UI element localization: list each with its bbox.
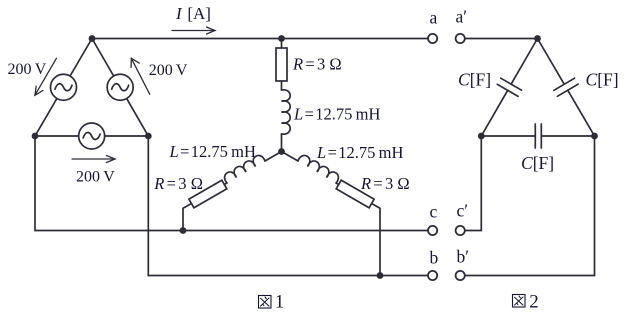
node top branch tap (278, 35, 285, 42)
terminal a (428, 34, 437, 43)
arrow 200V bottom (72, 156, 115, 163)
wire R1 to L1 (281, 81, 283, 90)
wire cap delta bottom right segment (541, 135, 594, 137)
svg-text:L = 12.75 mH: L = 12.75 mH (293, 105, 381, 124)
node cap delta apex (534, 35, 541, 42)
label figure 1 (zu 1) (259, 296, 272, 309)
wire cap delta left side lower (481, 90, 507, 136)
svg-text:R = 3 Ω: R = 3 Ω (292, 55, 342, 74)
svg-text:200 V: 200 V (149, 62, 188, 79)
svg-text:C[F]: C[F] (586, 70, 619, 90)
wire delta bottom side (35, 135, 148, 137)
node cap delta bottom-left (478, 133, 485, 140)
svg-text:1: 1 (275, 292, 285, 313)
svg-text:c′: c′ (457, 201, 469, 221)
arrow current I (172, 27, 215, 34)
terminal c (428, 226, 437, 235)
resistor R1 (top branch, R=3 ohm) (276, 48, 287, 81)
wire star point to L2 (265, 152, 282, 162)
wire delta right side (92, 39, 148, 137)
node delta bottom-right (145, 133, 152, 140)
svg-text:C[F]: C[F] (521, 153, 554, 173)
node right branch to b-line (377, 272, 384, 279)
terminal a' (456, 34, 465, 43)
wire right vertical to b-line (148, 136, 428, 276)
node star point N (278, 148, 285, 155)
terminal c' (456, 226, 465, 235)
node left branch to c-line (180, 227, 187, 234)
wire cap delta right side lower (568, 90, 595, 136)
wire cap delta right side upper (538, 39, 565, 85)
wire delta left side (35, 39, 92, 137)
node delta bottom-left (32, 133, 39, 140)
inductor L3 (right branch, L=12.75 mH) (298, 155, 338, 183)
svg-text:a: a (430, 8, 438, 28)
inductor L2 (left branch, L=12.75 mH) (225, 155, 265, 183)
svg-text:L = 12.75 mH: L = 12.75 mH (169, 142, 257, 161)
arrow 200V right (131, 58, 150, 94)
capacitor C3 (bottom, C[F]) (535, 124, 541, 148)
wire cap delta bottom left segment (481, 135, 535, 137)
node cap delta bottom-right (591, 133, 598, 140)
wire a' to capacitor delta apex (465, 38, 538, 40)
capacitor C1 (left side, C[F]) (497, 78, 521, 96)
node delta apex (89, 35, 96, 42)
wire top bus (delta apex to terminal a) (92, 38, 428, 40)
source V1 (left, 200 V) (51, 74, 77, 100)
label figure 2 (zu 2) (513, 295, 526, 308)
terminal b' (456, 271, 465, 280)
svg-text:b′: b′ (457, 247, 470, 267)
inductor L1 (top branch, L=12.75 mH) (282, 90, 291, 134)
terminal b (428, 271, 437, 280)
svg-text:b: b (430, 248, 439, 268)
source V3 (bottom, 200 V) (79, 123, 105, 149)
wire c' to cap delta bottom-left (465, 136, 482, 231)
capacitor C2 (right side, C[F]) (554, 78, 578, 96)
wire R1 top lead (281, 39, 283, 49)
svg-text:L = 12.75 mH: L = 12.75 mH (316, 143, 404, 162)
resistor R3 (right branch, R=3 ohm) (336, 180, 374, 208)
wire R3 to corner (372, 204, 380, 276)
svg-text:c: c (430, 202, 438, 222)
source V2 (right, 200 V) (107, 74, 133, 100)
arrow 200V left (35, 58, 57, 95)
svg-text:R = 3 Ω: R = 3 Ω (153, 174, 203, 193)
wire left vertical to c-line (35, 136, 428, 231)
wire star point to L3 (282, 152, 299, 162)
wire b' to cap delta bottom-right (465, 136, 595, 276)
svg-text:200 V: 200 V (8, 61, 47, 78)
svg-text:200 V: 200 V (76, 169, 115, 186)
svg-text:2: 2 (529, 292, 539, 313)
svg-text:a′: a′ (456, 7, 468, 27)
svg-text:I [A]: I [A] (175, 4, 211, 23)
svg-text:C[F]: C[F] (458, 70, 491, 90)
wire L3 to R3 (336, 183, 339, 185)
wire L1 to star point (281, 134, 283, 152)
wire cap delta left side upper (511, 39, 537, 85)
wire R2 to corner (183, 204, 191, 231)
resistor R2 (left branch, R=3 ohm) (189, 180, 227, 208)
wire L2 to R2 (224, 183, 227, 185)
svg-text:R = 3 Ω: R = 3 Ω (360, 174, 410, 193)
